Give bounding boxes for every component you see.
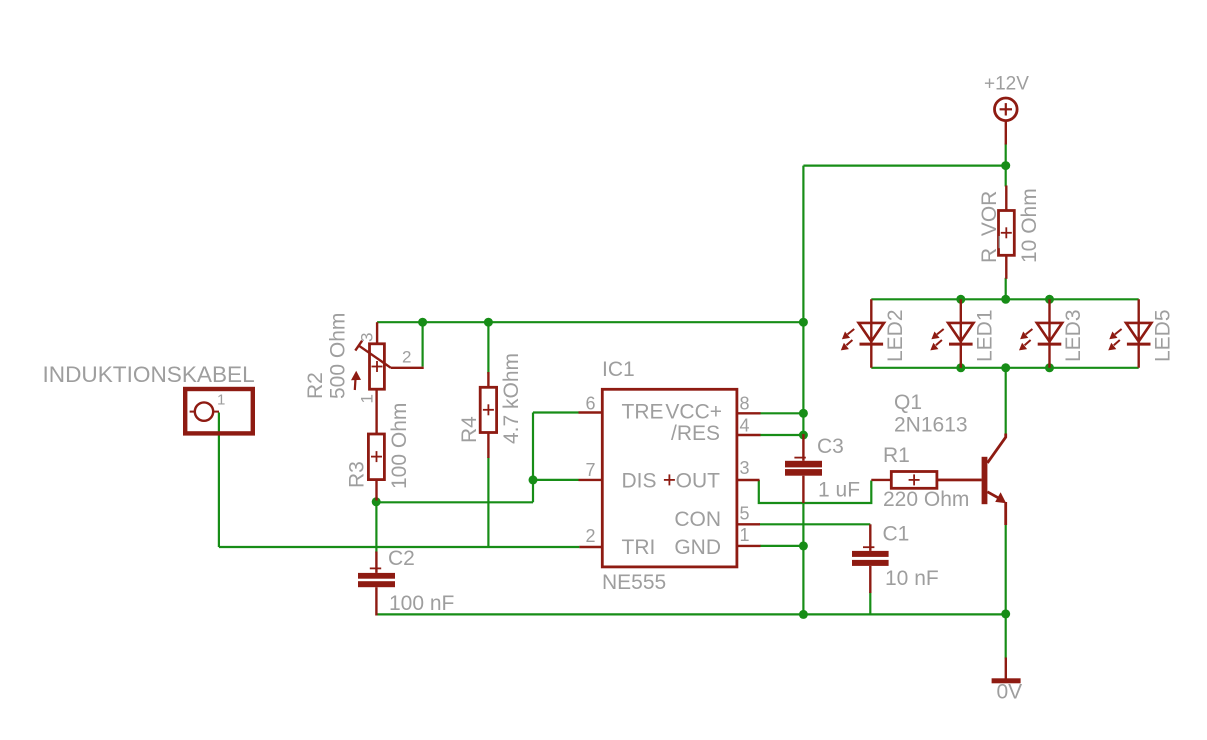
junction V+ at R VOR top [1001,161,1010,170]
junction y322 on x803 [799,318,808,327]
svg-text:C1: C1 [883,523,910,546]
wire DIS horizontal [533,479,579,481]
junction R4 on y322 [484,318,493,327]
wire bottom rail y614 [377,613,1006,615]
svg-text:3: 3 [740,458,750,478]
wire R3 junction to x533 [376,501,533,503]
wire pot pin2 riser [422,322,424,366]
wire LED top rail [871,298,1138,300]
wire LED bottom rail [871,367,1138,369]
wire pin1 GND to x803 [760,545,803,547]
wire CON/pin5 to C1 [759,523,870,525]
IC1 pin 8 stub [737,412,761,414]
IC1 pin 2 stub [579,546,602,548]
svg-text:R4: R4 [458,416,481,443]
svg-text:10 Ohm: 10 Ohm [1018,188,1041,263]
svg-text:C3: C3 [817,435,844,458]
wire Q1 emitter down to ground [1005,525,1007,659]
svg-text:2: 2 [585,526,595,546]
resistor R3 [368,434,384,501]
svg-text:CON: CON [674,508,721,531]
wire TRE/DIS vertical x533 [532,413,534,503]
svg-text:LED3: LED3 [1062,309,1085,362]
wire long vertical x803 lower [802,503,804,615]
svg-text:7: 7 [585,460,595,480]
svg-text:100 nF: 100 nF [389,592,454,615]
wire long vertical x803 upper [802,166,804,435]
svg-text:500 Ohm: 500 Ohm [327,313,350,399]
junction pin1 on x803 [799,541,808,550]
svg-text:LED5: LED5 [1151,309,1174,362]
ground 0V [992,658,1021,684]
junction LED1 bottom [956,363,965,372]
LED LED2 [841,299,884,368]
svg-text:1: 1 [740,525,750,545]
junction LED1 top [956,295,965,304]
svg-text:R3: R3 [346,461,369,488]
svg-text:OUT: OUT [676,470,721,493]
svg-text:VCC+: VCC+ [665,401,722,424]
wire R3 junction down to C2 [375,502,377,553]
junction ground tap on bottom rail [1001,609,1010,618]
capacitor C2 [358,552,395,616]
transistor Q1 [938,434,1006,526]
svg-text:LED1: LED1 [974,309,997,362]
IC1 pin 7 stub [579,479,603,481]
svg-text:LED2: LED2 [884,309,907,362]
svg-text:TRI: TRI [622,536,656,559]
svg-text:1 uF: 1 uF [818,479,860,502]
svg-text:TRE: TRE [622,401,664,424]
resistor R1 [871,472,981,489]
wire R4 top lead green [487,322,489,373]
LED LED1 [930,299,973,368]
wire TRI horizontal [219,546,580,548]
svg-text:INDUKTIONSKABEL: INDUKTIONSKABEL [43,362,255,387]
svg-text:2: 2 [402,347,411,366]
supply +12V [995,98,1018,145]
junction R VOR feed on LED top rail [1001,295,1010,304]
svg-text:1: 1 [357,394,376,403]
IC1 pin 6 stub [579,411,603,413]
wire V+ top horizontal [803,165,1005,167]
svg-text:R2: R2 [304,372,327,399]
svg-text:/RES: /RES [671,422,720,445]
svg-text:0V: 0V [997,681,1023,704]
wire connector drop [218,413,220,548]
junction pot pin2 riser on y322 [418,318,427,327]
junction LED3 top [1045,295,1054,304]
svg-text:+12V: +12V [984,74,1029,95]
junction DIS branch [529,475,538,484]
junction LED3 bottom [1045,363,1054,372]
potentiometer R2 [351,322,424,434]
svg-text:8: 8 [740,394,750,414]
wire OUT jog to R1 [759,480,872,503]
svg-text:NE555: NE555 [602,571,666,594]
svg-text:Q1: Q1 [894,391,922,414]
wire C1 bottom green [869,592,871,614]
wire LED rail to Q1 collector [1005,368,1007,434]
junction pin4 on x803 [799,431,808,440]
resistor R4 [480,372,496,458]
svg-text:4.7 kOhm: 4.7 kOhm [500,353,523,444]
IC1 pin 1 stub [737,545,761,547]
svg-text:2N1613: 2N1613 [894,414,968,437]
wire R2/R4 top rail y322 [377,321,803,323]
junction x803 on bottom rail [799,610,808,619]
junction pin8 on x803 [799,409,808,418]
svg-text:5: 5 [740,503,750,523]
resistor R_VOR [999,186,1015,279]
LED LED5 [1108,299,1151,368]
capacitor C1 [852,524,889,593]
svg-text:R1: R1 [883,444,910,467]
IC1 pin 4 stub [737,434,761,436]
svg-text:1: 1 [217,392,225,409]
connector INDUKTIONSKABEL [185,389,253,433]
junction collector tap on LED bottom rail [1001,363,1010,372]
svg-text:GND: GND [674,536,721,559]
IC op-amp/timer U1 box [602,389,737,567]
IC1 pin 5 stub [737,523,760,525]
svg-text:4: 4 [740,415,750,435]
svg-text:100 Ohm: 100 Ohm [388,403,411,489]
svg-text:10 nF: 10 nF [885,567,939,590]
junction below R3 [372,497,381,506]
wire TRE horizontal [533,411,579,413]
wire R VOR bottom green [1005,278,1007,300]
LED LED3 [1019,299,1062,368]
wire R4 bottom to TRI net [487,457,489,547]
capacitor C3 [785,434,822,503]
wire pin4 to x803 [760,434,803,436]
svg-text:R_VOR: R_VOR [978,191,1001,263]
svg-text:3: 3 [357,333,376,342]
svg-text:DIS: DIS [622,470,657,493]
IC1 pin 3 stub [737,479,760,481]
wire pin8 to x803 [760,412,803,414]
wire +12V supply drop [1005,144,1007,187]
svg-text:6: 6 [585,394,595,414]
svg-text:IC1: IC1 [602,358,635,381]
svg-text:220 Ohm: 220 Ohm [883,488,969,511]
svg-text:C2: C2 [388,547,415,570]
